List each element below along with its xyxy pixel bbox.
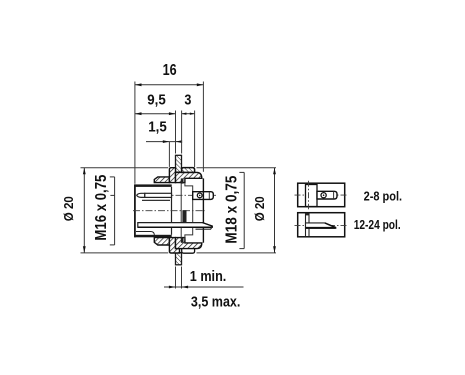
svg-text:3: 3: [184, 93, 191, 109]
wire: dimension 16 extension line left: [134, 82, 136, 184]
wire: extension x=194.6 (nut back face): [194, 111, 196, 168]
solder lug top (with hole): [193, 192, 214, 200]
svg-text:1 min.: 1 min.: [190, 269, 227, 285]
dimension panel thickness line: [164, 286, 244, 289]
back body step outline: [185, 183, 193, 239]
insulator step line: [180, 183, 182, 239]
dimension Ø20 left vertical line: [83, 168, 86, 253]
dimension 9,5 line: [135, 112, 176, 115]
svg-text:9,5: 9,5: [147, 93, 166, 109]
wire: left Ø20 extension bottom: [81, 252, 169, 254]
back face line: [202, 178, 204, 242]
svg-text:M16 x 0,75: M16 x 0,75: [93, 174, 110, 240]
M18 thread extent bracket: [239, 172, 244, 248]
wire: extension x=175.5 (panel front face): [175, 111, 177, 154]
wire: panel thickness extension right: [181, 267, 183, 289]
nut top (hatched crown): [182, 168, 195, 173]
svg-text:1,5: 1,5: [148, 119, 167, 135]
side view 2-8 pol. holder: [306, 185, 318, 207]
panel upper strip (hatched): [176, 155, 182, 172]
side view 12-24 pol. centerline horizontal: [295, 224, 349, 226]
wire: right Ø20 extension bottom: [197, 252, 277, 254]
blade underside bevel line: [196, 227, 213, 229]
panel lower strip (hatched): [176, 253, 182, 265]
svg-text:16: 16: [163, 62, 177, 79]
main axis centerline: [133, 210, 205, 212]
dimension 1,5 line with outside arrows: [146, 140, 182, 143]
shroud tube wall bottom (solid): [134, 235, 171, 238]
dimension Ø20 right vertical line: [273, 168, 276, 253]
wire: extension x=181.6 (panel back face): [181, 111, 183, 154]
wire: dimension 16 extension line right: [202, 82, 204, 172]
side view 2-8 pol. outer box: [298, 183, 345, 207]
shell M16 thread band bottom (hatched): [154, 238, 169, 245]
side view 12-24 pol. outer box: [298, 213, 345, 237]
pin contact (bullet + rod): [137, 193, 145, 197]
wire: extension x=169.4 (flange front): [168, 142, 170, 167]
shroud tube wall top (solid): [134, 184, 171, 187]
blade contact bottom: [138, 223, 213, 228]
side view 12-24 pol. inner strip: [305, 213, 307, 237]
shell flange top (hatched): [169, 168, 175, 183]
shroud front face: [134, 184, 136, 237]
shell M18 section top (hatched): [176, 172, 202, 182]
notch behind panel bottom: [181, 238, 184, 243]
shell M16 thread band top (hatched): [154, 177, 169, 183]
wire: panel thickness extension left: [175, 267, 177, 289]
insulator front face line: [171, 187, 173, 235]
slot line lower shroud: [136, 232, 154, 235]
dimension 16 line: [135, 83, 204, 86]
svg-text:12-24 pol.: 12-24 pol.: [354, 217, 401, 232]
shell flange bottom (hatched): [169, 238, 179, 253]
wire: right Ø20 extension top: [197, 167, 277, 169]
slot line under pin: [142, 199, 170, 201]
notch behind panel top: [181, 178, 184, 183]
pin contact centerline: [138, 194, 216, 196]
side view 2-8 pol. centerline horizontal: [295, 194, 349, 196]
center contact bar: [182, 210, 186, 222]
M16 thread extent bracket: [110, 177, 115, 245]
side view 12-24 pol. blade: [306, 223, 336, 228]
nut bottom: [182, 249, 195, 254]
side view 2-8 pol. lug: [317, 191, 337, 199]
shell M18 section bottom (hatched): [176, 238, 202, 249]
svg-text:2-8 pol.: 2-8 pol.: [364, 188, 403, 203]
wire: left Ø20 extension top: [81, 167, 169, 169]
svg-text:3,5 max.: 3,5 max.: [191, 294, 241, 310]
side view 2-8 pol. centerline vertical: [308, 181, 310, 210]
dimension 3 line: [182, 113, 195, 115]
svg-text:Ø 20: Ø 20: [252, 196, 267, 221]
svg-text:M18 x 0,75: M18 x 0,75: [223, 175, 240, 243]
svg-text:Ø 20: Ø 20: [61, 196, 76, 221]
